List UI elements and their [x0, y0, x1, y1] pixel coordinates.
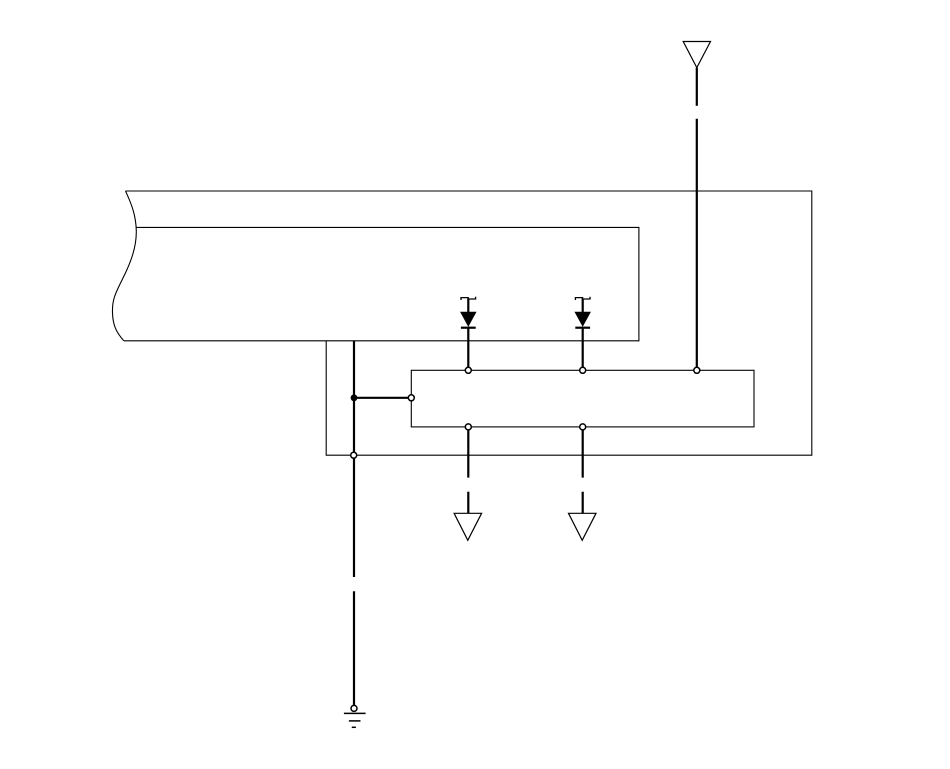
terminal pin: module left (shield)	[408, 395, 414, 401]
wire: junction to module left pin	[354, 397, 409, 399]
module box (tuner unit)	[411, 370, 754, 427]
diode D1 cathode bar	[461, 327, 476, 329]
terminal pin: module top (diode D1 input)	[465, 367, 471, 373]
terminal pin: module top (diode D2 input)	[580, 367, 586, 373]
outer unit box (open left side)	[126, 191, 812, 455]
torn break edge (left wavy cut)	[112, 191, 136, 341]
diode D1 (cathode down)	[461, 312, 476, 326]
diode D2 (cathode down)	[575, 312, 590, 326]
off-page arrow 2 (open triangle down)	[569, 513, 597, 540]
ground bar 2	[349, 720, 361, 722]
diode D1 break squiggle (wire continues)	[461, 297, 476, 300]
wire: diode D1 cathode to module pin	[467, 328, 469, 368]
ground bar 3	[352, 726, 356, 728]
wire: ground run lower segment	[353, 591, 355, 705]
antenna symbol (open triangle)	[683, 42, 710, 68]
wire: diode D2 anode lead	[582, 299, 584, 314]
wire: ground run upper segment	[353, 455, 355, 577]
wire: module bottom pin 2 lead	[582, 427, 584, 478]
wire: antenna lead upper segment	[696, 68, 698, 106]
wire: diode D1 anode lead	[467, 299, 469, 314]
ground terminal circle	[351, 705, 357, 711]
wire: diode D2 cathode to module pin	[582, 328, 584, 368]
terminal pin: outer box bottom (chassis feed-through)	[351, 452, 357, 458]
diode D2 break squiggle (wire continues)	[575, 297, 590, 300]
diode D2 cathode bar	[575, 327, 590, 329]
wire: shield drop from inner box to ground run	[353, 341, 355, 455]
off-page arrow 1 (open triangle down)	[454, 513, 482, 540]
inner cable sheet box (open left side)	[124, 227, 639, 340]
junction dot	[351, 394, 358, 401]
wire: antenna lead lower segment (into module)	[696, 119, 698, 368]
wire: module bottom pin 2 lead continuation	[582, 492, 584, 513]
ground bar 1	[344, 712, 366, 714]
wire: module bottom pin 1 lead	[467, 427, 469, 478]
terminal pin: module bottom 2	[580, 424, 586, 430]
wire: module bottom pin 1 lead continuation	[467, 492, 469, 513]
terminal pin: module top (antenna input)	[694, 367, 700, 373]
terminal pin: module bottom 1	[465, 424, 471, 430]
